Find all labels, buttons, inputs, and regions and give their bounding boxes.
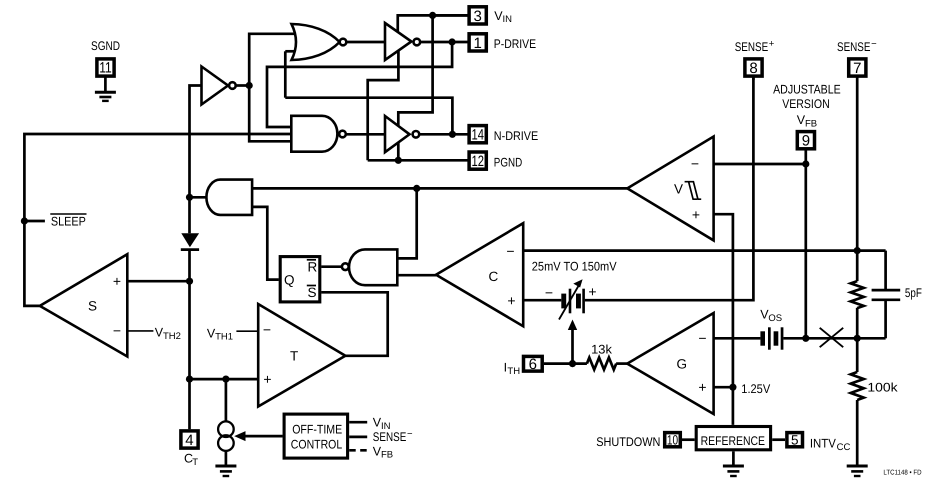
- wire: OFF-TIME CONTROL output arrow line to current source: [238, 435, 283, 438]
- pin 1 box: [469, 34, 486, 51]
- svg-text:+: +: [698, 379, 706, 395]
- svg-text:VERSION: VERSION: [782, 97, 830, 111]
- svg-text:+: +: [692, 206, 700, 222]
- svg-text:FB: FB: [381, 450, 393, 461]
- svg-text:10: 10: [667, 432, 678, 447]
- svg-text:IN: IN: [503, 14, 513, 25]
- amplifier G: [627, 313, 713, 414]
- svg-text:SENSE: SENSE: [837, 40, 871, 54]
- wire: AND output to trunk: [190, 196, 207, 199]
- node: VIN dot: [429, 12, 436, 19]
- wire: V comparator output long line to AND gate input 1: [252, 187, 627, 190]
- svg-text:N-DRIVE: N-DRIVE: [494, 129, 538, 143]
- wire: left SLEEP rail from S output up to NAND input 2: [24, 134, 291, 306]
- svg-text:−: −: [263, 321, 271, 337]
- svg-text:TH2: TH2: [163, 331, 181, 342]
- svg-text:5pF: 5pF: [905, 286, 922, 300]
- wire: P-driver output to P-DRIVE node: [420, 41, 468, 44]
- wire: current source tap down from T+ line: [225, 379, 228, 421]
- wire: N-DRIVE feedback horizontal and up to output node: [285, 98, 452, 135]
- ground: REFERENCE: [723, 466, 744, 476]
- wire: VIN rail vertical down to N-driver top tap: [398, 15, 432, 130]
- svg-text:SGND: SGND: [91, 39, 120, 53]
- wire: VOS battery right to 100k top corner: [783, 337, 885, 340]
- svg-text:OFF-TIME: OFF-TIME: [292, 422, 342, 436]
- ITH control arrowhead: [568, 320, 577, 331]
- svg-text:5: 5: [791, 432, 799, 447]
- svg-text:G: G: [677, 356, 688, 371]
- pin 6 box: [524, 356, 543, 371]
- wire: NOR input 2 vertical from N-drive feedback line: [284, 51, 287, 97]
- pin 3 box: [469, 7, 486, 24]
- svg-text:25mV TO 150mV: 25mV TO 150mV: [532, 259, 617, 273]
- svg-text:FB: FB: [805, 119, 817, 130]
- node: current-source tap dot: [222, 376, 229, 383]
- VOS battery: [760, 331, 765, 345]
- pin 11 box: [97, 59, 114, 76]
- svg-text:100k: 100k: [867, 381, 898, 395]
- wire: PGND rail up to P-driver bottom tap: [368, 48, 399, 160]
- svg-text:−: −: [871, 39, 877, 50]
- wire: pin 3 VIN stub: [433, 14, 468, 17]
- wire: VIN rail top horizontal with P-driver top tap: [398, 15, 468, 36]
- wire: OFF-TIME CONTROL SENSE- stub: [349, 436, 367, 439]
- hysteresis glyph: [685, 182, 702, 200]
- svg-text:V: V: [674, 182, 683, 197]
- thin leader: VTH1 to T - input: [236, 330, 258, 332]
- svg-text:Q: Q: [284, 272, 295, 287]
- svg-text:TH1: TH1: [215, 332, 233, 343]
- diode on trunk: [181, 233, 199, 247]
- ground: SENSE- divider: [847, 466, 868, 476]
- current source: [218, 421, 234, 437]
- pin 10 box: [665, 433, 681, 447]
- wire: C comparator output to NAND2 input 2: [397, 274, 436, 277]
- wire: pin 9 VFB stem down to G- line: [804, 150, 807, 339]
- node: VOS/VFB dot: [802, 335, 809, 342]
- wire: pin 8 box stem: [752, 76, 755, 80]
- buffer P-driver: [385, 23, 411, 60]
- wire: C comparator + input to offset battery: [523, 299, 561, 302]
- wire: PGND line from corner to pin 12: [368, 159, 468, 162]
- svg-text:8: 8: [749, 60, 757, 77]
- svg-text:LTC1148 • FD: LTC1148 • FD: [883, 469, 921, 476]
- svg-text:R: R: [308, 260, 318, 275]
- X mark (adjustable version disconnect): [820, 328, 844, 347]
- thin leader: VTH2 to S - input: [127, 330, 153, 332]
- inverter (sleep logic): [202, 67, 229, 105]
- wire: inverter-output vertical up to NOR input 1: [249, 34, 297, 86]
- svg-text:CC: CC: [837, 442, 851, 453]
- variable-battery diagonal arrow: [559, 285, 579, 320]
- comparator S: [40, 254, 128, 356]
- svg-text:SENSE: SENSE: [735, 40, 769, 54]
- svg-text:INTV: INTV: [810, 436, 837, 450]
- node: VFB dot: [802, 160, 809, 167]
- svg-text:T: T: [192, 457, 198, 468]
- pin 9 box: [797, 132, 814, 149]
- svg-text:SHUTDOWN: SHUTDOWN: [596, 435, 660, 449]
- svg-text:+: +: [113, 273, 121, 289]
- wire: branch down to NAND2 input 1: [397, 188, 416, 258]
- svg-text:CONTROL: CONTROL: [291, 438, 342, 452]
- svg-text:14: 14: [471, 127, 484, 144]
- svg-text:7: 7: [853, 60, 861, 77]
- node: P-DRIVE dot: [449, 38, 456, 45]
- wire: NOR input 2 stub into gate: [285, 50, 297, 53]
- wire: NOR output to P-driver input: [346, 41, 385, 44]
- node: S+ trunk dot: [186, 278, 193, 285]
- svg-text:−: −: [407, 429, 413, 440]
- pin 12 box: [469, 152, 486, 169]
- svg-text:1.25V: 1.25V: [741, 382, 770, 396]
- pin 7 box: [849, 59, 866, 76]
- comparator C: [436, 223, 523, 326]
- wire: NAND output to N-driver input: [346, 133, 385, 136]
- svg-text:SLEEP: SLEEP: [51, 215, 86, 229]
- svg-text:REFERENCE: REFERENCE: [701, 434, 765, 448]
- wire: T comparator + input line to trunk: [190, 378, 259, 381]
- wire: pin 11 SGND ground stem: [104, 77, 107, 92]
- ground: SGND: [95, 92, 116, 101]
- arrowhead into current source: [234, 431, 245, 441]
- svg-text:9: 9: [802, 133, 810, 150]
- wire: G amp + input stub: [714, 386, 733, 389]
- wire: inverter output to junction: [236, 84, 249, 87]
- node: V-line branch dot: [413, 185, 420, 192]
- node: N-driver PGND tap dot: [395, 157, 402, 164]
- svg-text:−: −: [506, 243, 514, 259]
- AND gate (left-pointing): [206, 180, 252, 215]
- offset battery 25mV TO 150mV: [561, 294, 566, 309]
- svg-text:−: −: [698, 330, 706, 346]
- svg-text:+: +: [263, 371, 271, 387]
- node: SLEEP dot: [21, 217, 28, 224]
- resistor 100k: [851, 372, 864, 400]
- svg-text:S: S: [308, 285, 317, 300]
- wire: inverter-output vertical down to NAND input 3: [249, 86, 291, 142]
- node: ITH dot: [569, 360, 576, 367]
- svg-text:PGND: PGND: [494, 156, 522, 170]
- wire: V comparator - input to VFB node: [714, 163, 806, 166]
- svg-text:T: T: [290, 349, 298, 364]
- wire: latch S input to T comparator output: [321, 292, 388, 356]
- wire: SLEEP stub: [24, 220, 45, 223]
- wire: latch Q output to AND input 2: [252, 207, 279, 280]
- wire: C comparator - input long line to sense network: [523, 249, 885, 252]
- wire: G amp - input through VOS to X node: [714, 337, 761, 340]
- wire: N-driver output to N-DRIVE node: [416, 133, 468, 136]
- ground: current source: [215, 466, 236, 476]
- wire: S comparator + input to trunk: [127, 280, 189, 283]
- capacitor 5pF: [872, 289, 901, 292]
- buffer N-driver: [385, 116, 410, 152]
- svg-text:3: 3: [474, 8, 482, 25]
- pin 5 box: [787, 433, 803, 447]
- node: AND output / trunk dot: [186, 194, 193, 201]
- svg-text:ADJUSTABLE: ADJUSTABLE: [773, 83, 841, 97]
- wire: 100k legs and ground stem: [856, 338, 859, 372]
- wire: OFF-TIME CONTROL VFB dashed stub: [349, 449, 367, 452]
- OFF-TIME CONTROL box: [284, 414, 348, 458]
- wire: pin 10 to REFERENCE box: [682, 438, 695, 441]
- wire: OFF-TIME CONTROL VIN stub: [349, 421, 367, 424]
- svg-text:13k: 13k: [591, 342, 613, 356]
- wire: latch R input from NAND2 output bubble: [321, 265, 342, 268]
- svg-text:OS: OS: [768, 313, 782, 324]
- wire: REFERENCE ground stem: [732, 451, 735, 464]
- pin 8 box: [745, 59, 762, 76]
- svg-text:S: S: [88, 299, 97, 314]
- NAND gate G2 (3-input): [291, 116, 337, 152]
- wire: V comparator + input leg down to 1.25V node and REFERENCE: [714, 214, 733, 425]
- resistor (sense divider top): [851, 281, 864, 308]
- wire: trunk below diode to pin 4: [188, 250, 191, 429]
- svg-text:12: 12: [471, 153, 484, 170]
- latch box: [280, 257, 320, 302]
- REFERENCE box: [696, 427, 770, 450]
- wire: N-driver bottom tap to PGND line: [397, 139, 400, 160]
- wire: pin 7 SENSE- stem down to C- line: [856, 76, 859, 250]
- svg-text:+: +: [588, 284, 596, 300]
- svg-text:4: 4: [185, 432, 193, 449]
- wire: 13k to G amp output apex: [616, 362, 627, 365]
- comparator T: [258, 304, 345, 407]
- node: T+ trunk dot: [186, 376, 193, 383]
- svg-text:6: 6: [529, 356, 537, 373]
- svg-text:−: −: [545, 284, 553, 300]
- node: N-DRIVE dot: [449, 131, 456, 138]
- wire: ITH pin 6 to 13k resistor: [544, 362, 587, 365]
- wire: current source bottom to ground: [225, 451, 228, 465]
- pin 14 box: [469, 126, 486, 143]
- wire: P-DRIVE feedback down, left, to NAND input 1: [267, 42, 452, 127]
- svg-text:11: 11: [99, 59, 112, 76]
- svg-text:+: +: [769, 39, 775, 50]
- svg-text:−: −: [691, 155, 699, 171]
- resistor 13k: [587, 358, 616, 370]
- node: 1.25V dot: [729, 384, 736, 391]
- node: C-/pin7 dot: [854, 247, 861, 254]
- svg-text:P-DRIVE: P-DRIVE: [494, 37, 536, 51]
- node: inverter output dot: [246, 82, 253, 89]
- wire: sense divider resistor legs: [856, 251, 859, 282]
- comparator V: [627, 137, 713, 241]
- wire: REFERENCE box to pin 5: [772, 438, 785, 441]
- wire: 5pF capacitor legs: [884, 251, 887, 291]
- svg-text:−: −: [113, 323, 121, 339]
- NAND2 gate (left-pointing): [349, 249, 397, 285]
- pin 4 box: [181, 431, 198, 448]
- svg-text:+: +: [507, 292, 515, 308]
- svg-text:1: 1: [474, 35, 482, 52]
- svg-text:C: C: [489, 269, 499, 284]
- wire: offset battery to SENSE+ rail corner and up to pin 8: [585, 76, 754, 300]
- wire: main CT trunk vertical (inverter input down to diode): [190, 86, 202, 234]
- svg-text:SENSE: SENSE: [373, 430, 407, 444]
- NOR gate G1: [292, 24, 340, 60]
- node: X/SENSE- dot: [854, 335, 861, 342]
- svg-text:TH: TH: [507, 366, 520, 377]
- wire: ITH control arrow line up toward offset battery: [571, 327, 574, 364]
